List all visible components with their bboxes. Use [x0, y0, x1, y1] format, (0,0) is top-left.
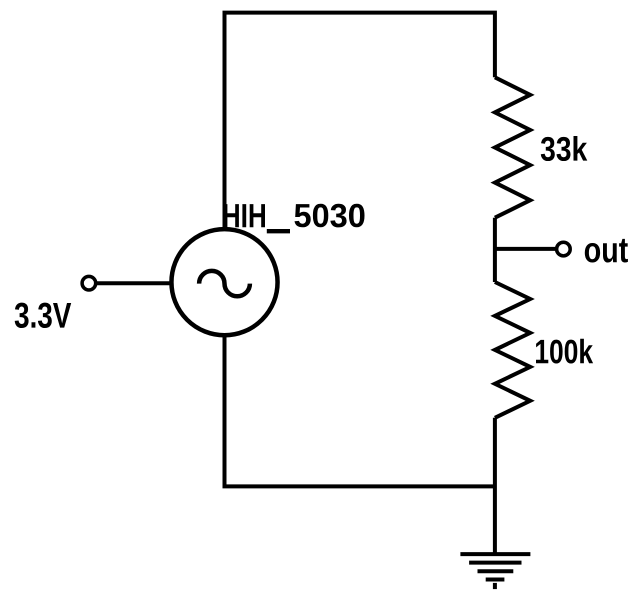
wire between R1 and R2 [493, 218, 497, 282]
label 100k [536, 339, 593, 364]
label 33k [541, 136, 588, 161]
terminal out [557, 242, 571, 256]
ground [460, 554, 530, 589]
label HIH [224, 204, 265, 227]
wire left terminal to source [96, 281, 173, 285]
terminal 3.3V [82, 276, 96, 290]
resistor R2 100k zigzag [495, 282, 530, 418]
wire bottom from source to ground rail [225, 334, 495, 486]
wire R2 to ground [493, 418, 497, 554]
source U1 HIH_5030 circle [171, 229, 277, 335]
resistor R1 33k zigzag [495, 77, 530, 217]
sine symbol [199, 271, 250, 296]
label 5030 [295, 204, 365, 228]
wire top loop from source to R1 [225, 13, 495, 231]
label underscore [267, 229, 290, 233]
label out [585, 239, 628, 263]
label 3.3V [15, 303, 71, 328]
wire out tap [495, 247, 556, 251]
